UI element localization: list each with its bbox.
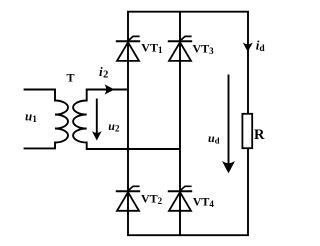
svg-text:R: R bbox=[254, 127, 265, 143]
svg-text:ud: ud bbox=[208, 131, 220, 146]
svg-text:u1: u1 bbox=[25, 109, 37, 126]
svg-text:id: id bbox=[256, 37, 266, 54]
svg-text:VT1: VT1 bbox=[141, 40, 163, 55]
svg-text:T: T bbox=[67, 70, 75, 84]
svg-text:i2: i2 bbox=[99, 64, 108, 81]
svg-text:VT4: VT4 bbox=[193, 194, 215, 209]
svg-text:VT2: VT2 bbox=[141, 191, 163, 206]
svg-text:u2: u2 bbox=[108, 119, 120, 134]
svg-text:VT3: VT3 bbox=[193, 41, 215, 56]
